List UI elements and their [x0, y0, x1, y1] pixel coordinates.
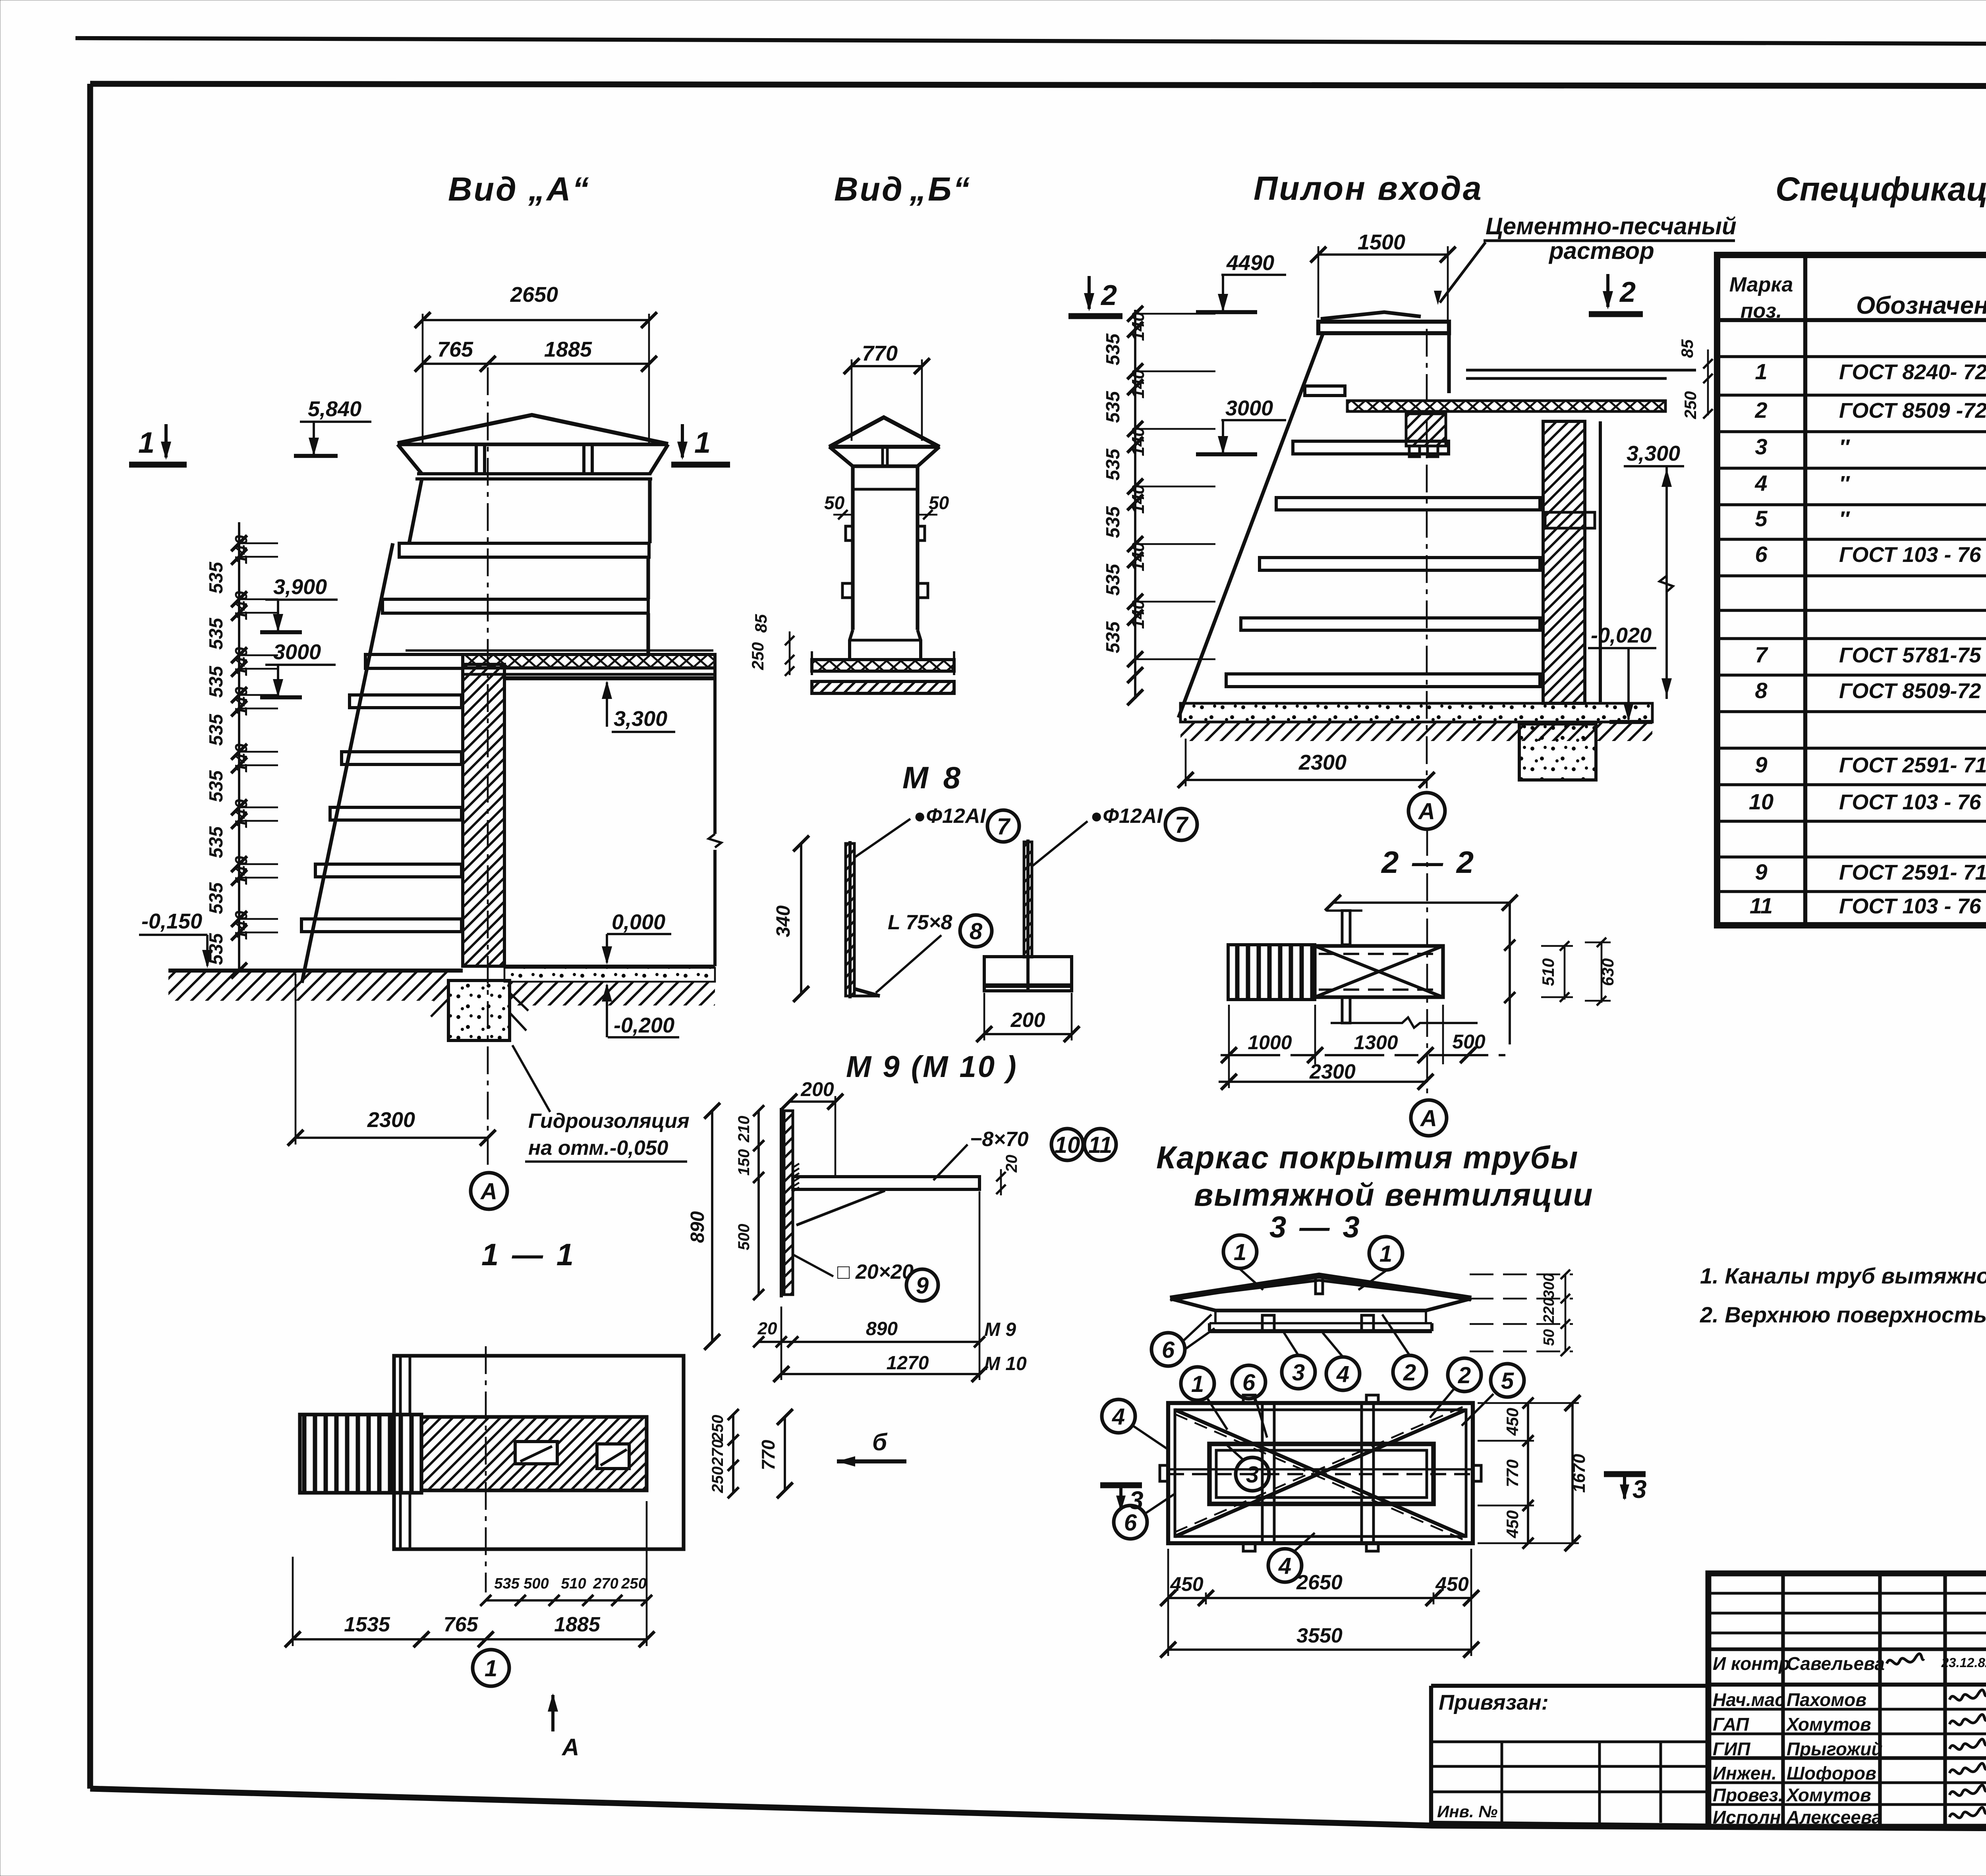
- svg-text:770: 770: [758, 1440, 779, 1470]
- svg-text:210: 210: [735, 1116, 753, 1143]
- svg-text:50: 50: [1541, 1329, 1557, 1346]
- svg-text:3: 3: [1129, 1486, 1144, 1515]
- svg-text:9: 9: [916, 1273, 929, 1299]
- svg-text:Привязан:: Привязан:: [1439, 1691, 1549, 1714]
- svg-text:ГОСТ 8509-72: ГОСТ 8509-72: [1839, 679, 1981, 703]
- svg-text:Пахомов: Пахомов: [1787, 1689, 1866, 1710]
- svg-text:1885: 1885: [554, 1613, 601, 1636]
- svg-text:220: 220: [1541, 1298, 1557, 1323]
- svg-text:3000: 3000: [273, 640, 321, 664]
- svg-text:1: 1: [138, 426, 155, 459]
- svg-text:2: 2: [1403, 1360, 1416, 1386]
- svg-text:Шофоров: Шофоров: [1787, 1763, 1876, 1783]
- svg-text:ГОСТ 103 - 76: ГОСТ 103 - 76: [1839, 543, 1981, 567]
- svg-text:500: 500: [524, 1575, 549, 1592]
- svg-text:-0,200: -0,200: [614, 1013, 674, 1037]
- svg-text:3000: 3000: [1225, 396, 1273, 420]
- svg-text:вытяжной вентиляции: вытяжной вентиляции: [1194, 1177, 1594, 1212]
- svg-text:1: 1: [1234, 1239, 1246, 1265]
- svg-text:2650: 2650: [1296, 1571, 1343, 1594]
- svg-text:4: 4: [1754, 471, 1767, 496]
- svg-text:140: 140: [1128, 427, 1148, 456]
- svg-text:630: 630: [1598, 958, 1617, 986]
- svg-text:раствор: раствор: [1548, 237, 1654, 264]
- svg-text:535: 535: [206, 618, 227, 650]
- svg-text:535: 535: [1103, 621, 1124, 653]
- svg-text:890: 890: [687, 1211, 708, 1243]
- svg-text:140: 140: [232, 687, 251, 716]
- svg-text:4: 4: [1112, 1404, 1125, 1430]
- svg-text:535: 535: [206, 882, 227, 914]
- svg-text:450: 450: [1503, 1510, 1522, 1538]
- svg-text:6: 6: [1162, 1337, 1175, 1363]
- svg-text:ГОСТ 103 - 76: ГОСТ 103 - 76: [1839, 894, 1981, 918]
- svg-text:4: 4: [1336, 1361, 1349, 1387]
- svg-text:Хомутов: Хомутов: [1785, 1714, 1871, 1735]
- svg-text:5: 5: [1501, 1368, 1514, 1394]
- svg-text:3: 3: [1292, 1360, 1305, 1386]
- svg-text:ГОСТ 103 - 76: ГОСТ 103 - 76: [1839, 790, 1981, 814]
- svg-text:3,300: 3,300: [614, 707, 667, 731]
- svg-text:500: 500: [735, 1224, 753, 1251]
- svg-text:85: 85: [1678, 339, 1696, 358]
- svg-text:140: 140: [232, 535, 251, 564]
- svg-text:2: 2: [1458, 1363, 1471, 1388]
- svg-text:7: 7: [1175, 812, 1189, 838]
- svg-text:5: 5: [1755, 506, 1768, 531]
- svg-text:510: 510: [561, 1575, 586, 1592]
- svg-text:2300: 2300: [1309, 1060, 1356, 1083]
- svg-text:250: 250: [709, 1467, 726, 1494]
- svg-text:ГОСТ 8509 -72: ГОСТ 8509 -72: [1839, 399, 1986, 423]
- svg-text:3550: 3550: [1296, 1624, 1343, 1647]
- svg-text:535: 535: [206, 826, 227, 858]
- svg-text:поз.: поз.: [1741, 299, 1782, 322]
- svg-text:М 9: М 9: [984, 1319, 1016, 1340]
- svg-text:Хомутов: Хомутов: [1785, 1785, 1871, 1805]
- svg-text:5,840: 5,840: [308, 397, 361, 421]
- svg-text:535: 535: [1103, 506, 1124, 538]
- svg-text:140: 140: [232, 591, 251, 620]
- svg-text:0,000: 0,000: [612, 910, 665, 934]
- svg-text:□ 20×20: □ 20×20: [837, 1260, 914, 1283]
- svg-text:1: 1: [1755, 359, 1767, 384]
- svg-text:7: 7: [1755, 642, 1768, 667]
- svg-text:3: 3: [1246, 1462, 1259, 1488]
- svg-text:3 — 3: 3 — 3: [1269, 1210, 1362, 1244]
- svg-text:на отм.-0,050: на отм.-0,050: [528, 1137, 668, 1160]
- svg-text:300: 300: [1541, 1273, 1557, 1298]
- svg-text:250: 250: [709, 1415, 726, 1442]
- svg-text:11: 11: [1088, 1132, 1112, 1158]
- svg-text:И контр: И контр: [1713, 1653, 1790, 1674]
- svg-text:2: 2: [1100, 280, 1117, 311]
- svg-text:б: б: [872, 1429, 888, 1455]
- svg-text:450: 450: [1170, 1573, 1204, 1595]
- svg-text:200: 200: [800, 1078, 834, 1100]
- svg-text:Исполн.: Исполн.: [1713, 1807, 1786, 1828]
- svg-text:450: 450: [1503, 1408, 1522, 1436]
- svg-text:510: 510: [1539, 958, 1557, 986]
- svg-text:535: 535: [1103, 391, 1124, 423]
- svg-text:140: 140: [232, 799, 251, 828]
- svg-text:765: 765: [444, 1613, 479, 1636]
- svg-text:„А“: „А“: [528, 170, 591, 208]
- svg-text:1300: 1300: [1354, 1031, 1398, 1054]
- svg-text:8: 8: [970, 919, 983, 944]
- svg-text:140: 140: [1128, 369, 1148, 399]
- svg-text:А: А: [480, 1179, 497, 1204]
- svg-text:20: 20: [757, 1319, 777, 1338]
- svg-text:1270: 1270: [887, 1353, 929, 1374]
- svg-text:770: 770: [862, 342, 898, 365]
- svg-text:Инжен.: Инжен.: [1713, 1763, 1777, 1783]
- svg-text:М 10: М 10: [984, 1353, 1027, 1374]
- svg-text:7: 7: [997, 814, 1011, 840]
- svg-text:Инв. №: Инв. №: [1437, 1802, 1497, 1821]
- svg-text:140: 140: [1128, 312, 1148, 341]
- svg-text:ГАП: ГАП: [1713, 1714, 1749, 1735]
- svg-text:50: 50: [824, 492, 845, 513]
- svg-text:2300: 2300: [1298, 751, 1347, 774]
- svg-text:23.12.82: 23.12.82: [1941, 1655, 1986, 1670]
- svg-text:ГОСТ 2591- 71: ГОСТ 2591- 71: [1839, 753, 1986, 777]
- svg-text:Гидроизоляция: Гидроизоляция: [528, 1110, 690, 1133]
- svg-text:Цементно-песчаный: Цементно-песчаный: [1486, 213, 1737, 239]
- svg-text:Спецификация металлических и: Спецификация металлических изделий: [1775, 170, 1986, 208]
- svg-text:″: ″: [1839, 507, 1850, 531]
- svg-text:Вид: Вид: [448, 170, 518, 208]
- svg-text:1 — 1: 1 — 1: [481, 1237, 576, 1272]
- svg-text:Алексеева: Алексеева: [1786, 1807, 1882, 1828]
- svg-text:535: 535: [206, 770, 227, 802]
- svg-text:535: 535: [1103, 564, 1124, 596]
- svg-text:ГИП: ГИП: [1713, 1739, 1750, 1759]
- svg-text:ГОСТ 8240- 72: ГОСТ 8240- 72: [1839, 360, 1986, 384]
- svg-text:10: 10: [1055, 1132, 1080, 1158]
- svg-text:535: 535: [206, 562, 227, 594]
- svg-text:535: 535: [1103, 448, 1124, 481]
- svg-text:2 — 2: 2 — 2: [1381, 845, 1476, 880]
- svg-text:Нач.мас: Нач.мас: [1713, 1689, 1785, 1710]
- svg-text:535: 535: [206, 933, 227, 965]
- svg-text:-0,150: -0,150: [141, 909, 202, 933]
- svg-text:1885: 1885: [544, 338, 592, 361]
- svg-text:1670: 1670: [1569, 1454, 1589, 1493]
- svg-text:А: А: [1418, 799, 1435, 824]
- svg-text:4: 4: [1278, 1553, 1291, 1579]
- svg-text:9: 9: [1755, 859, 1767, 884]
- svg-text:1535: 1535: [344, 1613, 390, 1636]
- svg-text:3,900: 3,900: [273, 575, 327, 599]
- svg-text:●Ф12АI: ●Ф12АI: [914, 805, 986, 828]
- svg-text:Марка: Марка: [1729, 273, 1793, 296]
- svg-text:А: А: [561, 1734, 579, 1760]
- svg-text:-0,020: -0,020: [1591, 623, 1652, 647]
- svg-text:140: 140: [1128, 600, 1148, 629]
- svg-text:85: 85: [752, 614, 770, 633]
- svg-text:„Б“: „Б“: [909, 170, 971, 208]
- svg-text:140: 140: [232, 856, 251, 885]
- svg-text:535: 535: [206, 714, 227, 746]
- svg-text:450: 450: [1435, 1573, 1469, 1595]
- svg-text:140: 140: [1128, 542, 1148, 571]
- svg-text:1. Каналы труб вытяжной вент: 1. Каналы труб вытяжной вентиляции изнут…: [1700, 1263, 1986, 1288]
- svg-text:1: 1: [1191, 1371, 1204, 1397]
- svg-text:1500: 1500: [1358, 230, 1405, 254]
- svg-text:9: 9: [1755, 752, 1767, 777]
- svg-text:ГОСТ 2591- 71: ГОСТ 2591- 71: [1839, 861, 1986, 884]
- svg-text:М 9 (М 10 ): М 9 (М 10 ): [846, 1050, 1018, 1084]
- svg-text:Провез.: Провез.: [1713, 1785, 1783, 1805]
- svg-text:20: 20: [1003, 1155, 1020, 1173]
- svg-text:1: 1: [485, 1656, 497, 1681]
- svg-text:М 8: М 8: [902, 760, 964, 795]
- svg-text:250: 250: [748, 642, 767, 670]
- svg-text:Каркас покрытия трубы: Каркас покрытия трубы: [1156, 1140, 1578, 1175]
- svg-text:А: А: [1420, 1106, 1437, 1131]
- svg-text:2. Верхнюю поверхность пилон: 2. Верхнюю поверхность пилонов зажелезни…: [1700, 1302, 1986, 1327]
- svg-text:″: ″: [1839, 472, 1850, 496]
- svg-text:535: 535: [494, 1575, 520, 1592]
- svg-text:2: 2: [1619, 276, 1636, 308]
- svg-text:2: 2: [1754, 398, 1767, 423]
- svg-text:140: 140: [232, 647, 251, 676]
- svg-text:3: 3: [1755, 434, 1767, 459]
- svg-text:500: 500: [1452, 1031, 1486, 1053]
- svg-text:250: 250: [621, 1575, 646, 1592]
- svg-text:535: 535: [1103, 333, 1124, 365]
- svg-text:ГОСТ 5781-75: ГОСТ 5781-75: [1839, 643, 1982, 667]
- svg-text:765: 765: [437, 338, 473, 361]
- svg-text:270: 270: [593, 1575, 618, 1592]
- svg-text:150: 150: [735, 1149, 753, 1176]
- svg-text:340: 340: [773, 905, 794, 937]
- svg-text:770: 770: [1503, 1459, 1522, 1487]
- svg-text:11: 11: [1750, 893, 1773, 918]
- svg-text:140: 140: [232, 911, 251, 940]
- svg-text:535: 535: [206, 666, 227, 698]
- svg-text:1: 1: [694, 426, 711, 459]
- svg-text:270: 270: [709, 1440, 726, 1467]
- svg-text:3: 3: [1632, 1475, 1647, 1504]
- svg-text:890: 890: [866, 1318, 898, 1339]
- svg-text:140: 140: [232, 743, 251, 773]
- svg-text:6: 6: [1755, 542, 1768, 567]
- svg-text:6: 6: [1242, 1370, 1256, 1395]
- svg-text:1: 1: [1379, 1241, 1392, 1267]
- svg-text:8: 8: [1755, 678, 1768, 703]
- svg-text:140: 140: [1128, 484, 1148, 514]
- svg-text:3,300: 3,300: [1627, 442, 1680, 465]
- svg-text:Прыгожий: Прыгожий: [1787, 1739, 1882, 1759]
- svg-text:L 75×8: L 75×8: [888, 911, 952, 934]
- svg-text:2650: 2650: [510, 283, 558, 307]
- svg-text:1000: 1000: [1248, 1031, 1292, 1054]
- svg-text:″: ″: [1839, 435, 1850, 459]
- svg-text:●Ф12АI: ●Ф12АI: [1090, 805, 1163, 828]
- svg-text:Вид: Вид: [834, 170, 904, 208]
- svg-text:Обозначение: Обозначение: [1856, 292, 1986, 319]
- svg-text:2300: 2300: [367, 1108, 415, 1132]
- svg-text:Пилон входа: Пилон входа: [1254, 170, 1483, 207]
- svg-text:10: 10: [1749, 789, 1773, 814]
- svg-text:Савельева: Савельева: [1787, 1653, 1885, 1674]
- svg-text:250: 250: [1681, 391, 1700, 419]
- svg-text:−8×70: −8×70: [970, 1128, 1029, 1151]
- svg-text:200: 200: [1010, 1009, 1045, 1032]
- svg-text:4490: 4490: [1226, 251, 1274, 275]
